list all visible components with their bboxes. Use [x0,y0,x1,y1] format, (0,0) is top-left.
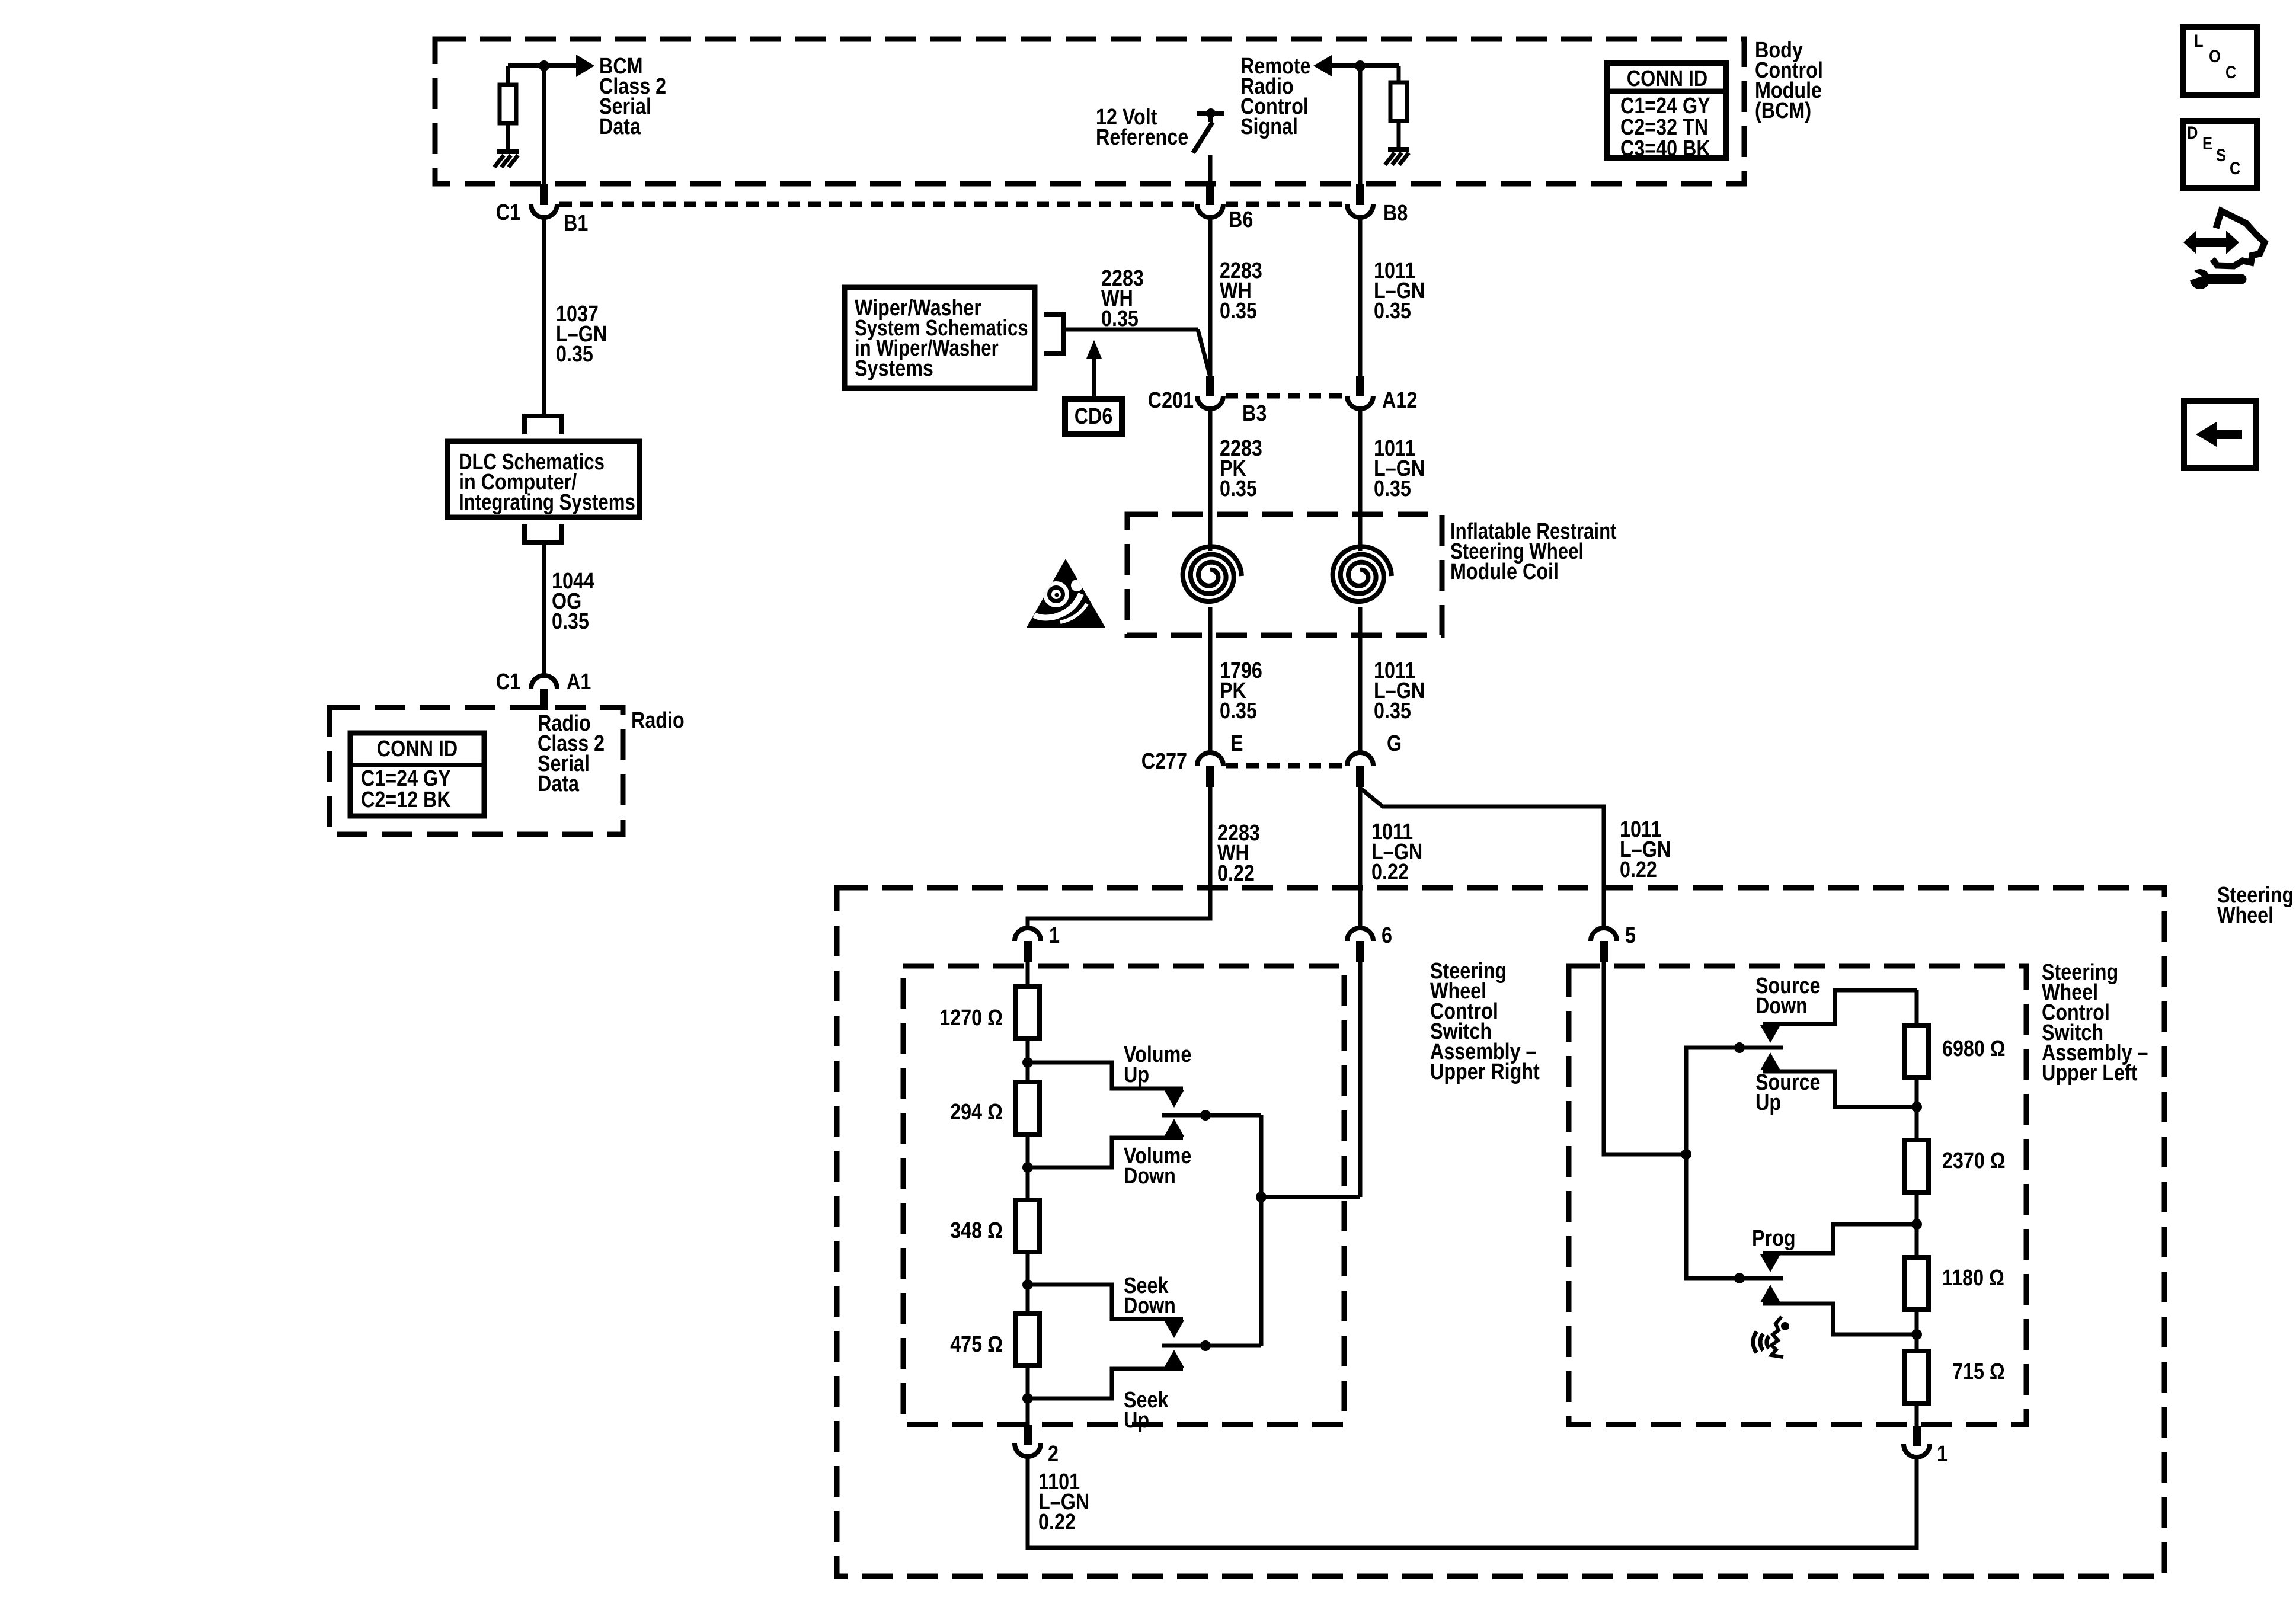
arrow to Remote Radio Control Signal [1313,55,1332,76]
switch common bus left [1259,1115,1264,1346]
switch seek down arm [1028,1285,1183,1319]
connector C201 B3 [1206,376,1214,396]
wire 1011 to pin 6 [1358,787,1363,927]
svg-text:0.35: 0.35 [1220,699,1257,724]
switch source up arm [1763,1071,1917,1107]
svg-text:Up: Up [1755,1090,1781,1115]
svg-text:0.22: 0.22 [1038,1510,1076,1535]
svg-text:Down: Down [1124,1164,1176,1189]
svg-text:E: E [2202,134,2212,153]
ground BCM serial [497,149,519,154]
junction dot seek down tap [1022,1279,1033,1290]
switch voice arm [1763,1304,1917,1334]
wire pin6 down [1358,962,1363,1197]
svg-text:475 Ω: 475 Ω [950,1332,1003,1357]
resistor BCM serial pull-up [506,66,510,85]
page bracket below DLC box [525,524,561,542]
connector row C201 dotted line [1226,393,1345,399]
svg-text:0.35: 0.35 [1220,476,1257,501]
Steering Wheel outer dashed box [837,888,2164,1576]
svg-text:A1: A1 [567,670,591,694]
svg-text:C: C [2230,159,2240,178]
junction dot volume up tap [1022,1057,1033,1068]
switch prog common [1686,1276,1783,1281]
svg-text:0.35: 0.35 [556,342,593,367]
svg-text:A12: A12 [1382,388,1417,413]
page bracket above DLC box [525,416,561,434]
svg-text:L: L [2194,31,2204,51]
ground BCM remote radio [1388,147,1409,152]
svg-text:S: S [2216,146,2226,165]
wire resistor to ground right [1397,121,1401,148]
wire 294 to tap [1026,1134,1030,1200]
svg-text:294 Ω: 294 Ω [950,1100,1003,1125]
junction dot voice tap [1911,1329,1922,1340]
resistor 348 [1016,1200,1040,1252]
svg-text:Upper Left: Upper Left [2042,1061,2138,1086]
resistor 1180 [1905,1257,1929,1310]
switch volume common [1162,1113,1261,1118]
svg-text:Module Coil: Module Coil [1450,559,1559,584]
wire 2370 to tap [1915,1192,1919,1257]
junction dot bus left [1256,1192,1267,1202]
wire 1270 to tap [1026,1039,1030,1082]
wire 1101 L-GN [1028,1457,1917,1548]
svg-text:1180 Ω: 1180 Ω [1942,1266,2004,1291]
connector C1 B1 [540,184,548,205]
switch volume up arm [1028,1062,1183,1089]
svg-text:0.22: 0.22 [1217,861,1255,886]
switch seek up arm [1028,1369,1183,1398]
BCM CONN ID table [1607,63,1726,158]
wire pin1 to 1270 [1026,962,1030,987]
svg-text:Upper Right: Upper Right [1430,1060,1540,1084]
connector pin 1 bottom [1913,1426,1921,1446]
svg-text:C3=40 BK: C3=40 BK [1620,136,1710,161]
Wiper Washer Systems box [845,287,1035,388]
resistor 294 [1016,1082,1040,1134]
svg-text:6980 Ω: 6980 Ω [1942,1036,2006,1061]
svg-text:Prog: Prog [1752,1226,1796,1251]
wire 715 to pin1 [1915,1403,1919,1426]
wire bus to pin6 [1261,1195,1360,1199]
junction dot pin5 bus [1681,1149,1691,1160]
svg-text:1270 Ω: 1270 Ω [939,1006,1003,1030]
connector pin 6 [1347,928,1373,941]
junction dot BCM serial [539,60,549,71]
svg-text:2370 Ω: 2370 Ω [1942,1148,2006,1173]
svg-text:0.35: 0.35 [1220,299,1257,324]
wire top feed to 6980 [1915,990,1919,1025]
Radio dashed box [330,708,623,834]
wire B8 to A12 [1358,219,1363,377]
switch assembly upper left dashed box [1569,966,2026,1425]
wire B6 to C201 [1208,219,1213,377]
connector row C277 dotted line [1226,763,1345,769]
arrow to BCM Class 2 Serial Data [576,55,594,77]
connector pin 1 upper [1015,928,1041,941]
svg-text:C1: C1 [496,200,520,225]
svg-text:B3: B3 [1242,401,1267,426]
switch source down arm [1763,990,1917,1024]
switch 12 Volt Reference [1197,111,1224,116]
svg-text:0.35: 0.35 [552,609,589,634]
SIR warning triangle [1027,559,1105,628]
connector pin 5 [1591,928,1617,941]
svg-text:D: D [2187,123,2198,143]
svg-text:1: 1 [1937,1442,1948,1467]
svg-text:Signal: Signal [1240,114,1298,139]
svg-text:B1: B1 [564,211,588,236]
svg-text:Systems: Systems [855,356,933,381]
coil spiral right [1333,546,1392,601]
svg-text:O: O [2209,47,2221,66]
Radio CONN ID table [350,733,484,816]
svg-text:0.35: 0.35 [1101,306,1139,331]
wire remote radio node [1332,63,1399,68]
svg-text:348 Ω: 348 Ω [950,1218,1003,1243]
CD6 box [1065,399,1122,434]
junction dot volume down tap [1022,1162,1033,1173]
switch source common [1686,1046,1783,1050]
svg-text:G: G [1387,731,1402,756]
wire resistor to ground [506,123,510,151]
wire 1011 upper [1358,411,1363,551]
wire pin5 to bus [1604,962,1686,1154]
svg-text:0.35: 0.35 [1374,699,1411,724]
svg-text:0.22: 0.22 [1371,860,1409,885]
svg-text:Down: Down [1755,994,1808,1019]
resistor 6980 [1905,1025,1929,1077]
svg-text:C277: C277 [1141,749,1187,774]
svg-text:C201: C201 [1148,388,1194,413]
switch bus right [1686,1048,1744,1278]
wire BCM serial data node [508,63,576,68]
connector A12 [1356,376,1364,396]
svg-text:Data: Data [599,114,641,139]
wire 1037 L-GN [542,219,546,414]
wire 1044 OG [542,542,546,676]
svg-text:1: 1 [1049,923,1060,948]
wire 1180 to tap [1915,1310,1919,1351]
svg-text:E: E [1230,731,1243,756]
connector C1 A1 [531,676,557,689]
icon DESC box [2183,121,2257,188]
connector row C1 B1 to B8 dotted line [559,202,1195,207]
wire 1011 jog to pin 5 [1360,788,1604,927]
wire B6 inside BCM [1208,155,1213,184]
connector pin 2 bottom [1024,1425,1032,1445]
wire 6980 to tap [1915,1077,1919,1140]
resistor 2370 [1905,1140,1929,1192]
DLC Schematics box [447,441,639,517]
svg-text:Up: Up [1124,1062,1149,1087]
svg-text:C1: C1 [496,670,520,694]
resistor 475 [1016,1314,1040,1366]
connector G [1347,753,1373,766]
wire 2283 WH 0.22 to pin 1 [1028,787,1210,927]
BCM module dashed box [435,39,1744,184]
svg-text:B6: B6 [1229,207,1253,232]
switch assembly upper right dashed box [903,966,1344,1425]
Inflatable Restraint coil dashed box [1127,514,1442,635]
svg-text:(BCM): (BCM) [1755,98,1811,123]
wire B8 inside BCM [1358,66,1363,184]
icon jump to schematic [2196,238,2226,247]
junction dot source up tap [1911,1102,1922,1112]
svg-text:CD6: CD6 [1075,404,1113,429]
svg-text:Integrating Systems: Integrating Systems [459,490,635,515]
svg-text:Up: Up [1124,1408,1149,1433]
switch volume down arm [1028,1138,1183,1167]
svg-text:6: 6 [1382,923,1392,948]
wire 2283 PK [1208,411,1213,551]
svg-text:B8: B8 [1383,201,1408,226]
wire 1011 lower [1358,607,1363,753]
wire 2283 WH wiper branch [1062,328,1198,332]
junction dot Remote Radio node [1355,60,1366,71]
wire 475 to pin2 [1026,1366,1030,1425]
svg-text:2: 2 [1048,1442,1059,1467]
svg-text:CONN ID: CONN ID [1627,66,1707,91]
icon LOC box [2183,27,2257,95]
svg-text:5: 5 [1625,923,1636,948]
svg-text:Data: Data [538,772,580,796]
connector C277 E [1197,753,1223,766]
svg-text:0.35: 0.35 [1374,299,1411,324]
svg-text:0.22: 0.22 [1620,857,1657,882]
icon wrench [2190,269,2210,289]
svg-text:Down: Down [1124,1294,1176,1318]
svg-text:C: C [2225,63,2236,82]
resistor 715 [1905,1351,1929,1403]
svg-text:C2=12 BK: C2=12 BK [361,788,451,812]
svg-text:Reference: Reference [1096,125,1188,150]
connector B8 [1356,184,1364,205]
wire B1 inside BCM [542,66,546,184]
resistor 1270 [1016,987,1040,1039]
voice recognition icon [1753,1331,1757,1353]
switch prog arm [1763,1224,1917,1253]
icon back arrow box [2184,401,2256,468]
svg-text:CONN ID: CONN ID [377,737,458,761]
arrow from CD6 [1086,340,1102,359]
svg-text:Radio: Radio [631,708,685,733]
junction dot seek up tap [1022,1393,1033,1404]
svg-text:715 Ω: 715 Ω [1952,1359,2005,1384]
svg-text:0.35: 0.35 [1374,476,1411,501]
wire 348 to tap [1026,1252,1030,1314]
switch seek common [1162,1344,1261,1348]
wire 1796 PK [1208,607,1213,753]
page bracket wiper output [1044,315,1063,354]
connector B6 [1206,184,1214,205]
svg-text:Wheel: Wheel [2217,903,2273,928]
resistor BCM remote radio pull-down [1397,66,1401,82]
coil spiral left [1183,546,1242,601]
junction dot prog tap [1911,1219,1922,1230]
